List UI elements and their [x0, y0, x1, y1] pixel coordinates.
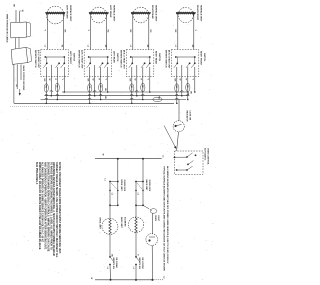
oven light connector oval: [150, 209, 157, 214]
broil lower contact: [109, 256, 111, 258]
connector oval: [99, 83, 103, 92]
svg-text:W: W: [48, 79, 50, 81]
surface element (R.R.) dashed circle: [133, 7, 149, 23]
thermostat terminals row2: [187, 164, 189, 166]
svg-text:RIGHT REAR: RIGHT REAR: [155, 51, 158, 64]
svg-text:TYPICAL SURFACE ELEMENT AND OV: TYPICAL SURFACE ELEMENT AND OVEN UNITS A…: [163, 166, 166, 271]
connector oval: [175, 84, 179, 93]
svg-text:LIGHT: LIGHT: [157, 215, 159, 222]
bottom bus wire L2: [95, 279, 153, 281]
switch output wires: [89, 67, 91, 103]
svg-text:W: W: [91, 79, 93, 81]
infinite switch (L.R.) box: [84, 50, 112, 77]
svg-text:WIRE THROUGH BX CABLE: WIRE THROUGH BX CABLE: [5, 14, 8, 43]
svg-text:OVEN CONTROL: OVEN CONTROL: [207, 148, 209, 165]
branch rail left: [109, 182, 111, 206]
oven thermostat dashed box: [175, 151, 204, 174]
element lead wire left: [132, 13, 134, 50]
bus junction dots: [131, 103, 133, 105]
switch contacts: [174, 63, 178, 68]
switch terminals: [131, 56, 150, 58]
bus wire 2: [45, 95, 189, 97]
branch drop wire: [117, 159, 119, 206]
bake lower contact: [135, 256, 137, 258]
switch internal stubs: [89, 57, 91, 63]
svg-text:GROUNDING DEVICES AFTER SERVIC: GROUNDING DEVICES AFTER SERVICING. 2. SK…: [52, 162, 55, 256]
switch terminals: [45, 56, 64, 58]
switch terminals: [176, 56, 195, 58]
infinite switch (R.R.) box: [126, 50, 154, 77]
BX cable connector box: [10, 22, 26, 38]
svg-text:INFINITE SWITCH: INFINITE SWITCH: [34, 50, 36, 68]
svg-text:LEFT FRONT: LEFT FRONT: [69, 51, 71, 65]
switch contacts: [43, 63, 47, 68]
broil bottom wire: [109, 265, 112, 280]
indicator light feed wire: [178, 100, 180, 121]
neutral wire down: [13, 64, 15, 103]
switch internal stubs: [176, 57, 178, 63]
bus wire 1: [62, 91, 189, 93]
chassis dotted line: [11, 106, 158, 108]
switch output wires: [176, 67, 178, 103]
switch internal stubs: [131, 57, 133, 63]
svg-text:WIRING CODES: BK-BLACK W-WHITE: WIRING CODES: BK-BLACK W-WHITE R-RED Y-Y…: [38, 162, 41, 250]
svg-text:SWITCH: SWITCH: [116, 53, 118, 62]
svg-text:2585W 236V: 2585W 236V: [123, 180, 125, 192]
bare copper wire: [20, 64, 22, 80]
rail tie top: [110, 181, 118, 183]
broil element wire upper: [109, 205, 111, 219]
wire hop arcs: [130, 94, 133, 95]
bus junction dots: [89, 103, 91, 105]
svg-text:SWITCH: SWITCH: [203, 53, 205, 62]
svg-text:AND DANGEROUS OPERATION. VERIF: AND DANGEROUS OPERATION. VERIFY OPERATIO…: [44, 162, 47, 250]
switch output wires: [131, 67, 133, 103]
svg-text:BR 2 REAR: BR 2 REAR: [115, 258, 118, 269]
svg-text:SWITCH: SWITCH: [158, 53, 160, 62]
svg-text:(R.F.) 5 HEAT UNIT: (R.F.) 5 HEAT UNIT: [168, 50, 171, 69]
svg-text:TO RANGE BEFORE DISCONNECTING: TO RANGE BEFORE DISCONNECTING WIRES. 3. …: [49, 162, 52, 250]
svg-text:L2: L2: [163, 276, 165, 278]
svg-text:2585W 236V: 2585W 236V: [148, 180, 150, 192]
element lead wire right: [148, 13, 150, 50]
element resistor band: [89, 12, 108, 14]
switch terminals: [89, 56, 108, 58]
svg-text:L2: L2: [137, 193, 139, 195]
svg-text:OVEN: OVEN: [154, 215, 156, 221]
svg-text:(R.R.) 5 HEAT UNIT: (R.R.) 5 HEAT UNIT: [123, 50, 126, 70]
svg-text:LEFT FRONT: LEFT FRONT: [66, 5, 68, 19]
svg-text:RIGHT FRONT: RIGHT FRONT: [200, 51, 202, 66]
svg-text:BR 1 FRONT: BR 1 FRONT: [141, 258, 143, 270]
infinite switch (L.F.) box: [41, 50, 69, 77]
svg-text:RIGHT FRONT: RIGHT FRONT: [196, 5, 198, 21]
svg-text:BAKE UNIT: BAKE UNIT: [120, 217, 123, 229]
feed junction node: [117, 158, 119, 160]
svg-text:SURFACE UNIT: SURFACE UNIT: [154, 5, 157, 22]
element lead wire right: [62, 13, 64, 50]
bake element wire lower: [135, 232, 137, 257]
wire hop arcs: [175, 94, 178, 95]
indicator light: [173, 121, 184, 132]
bus wire 4: [14, 102, 174, 104]
svg-text:L1: L1: [132, 267, 134, 269]
svg-text:BROIL UNIT: BROIL UNIT: [99, 218, 101, 230]
infinite switch (R.F.) box: [171, 50, 199, 77]
thermostat terminals row3: [176, 169, 178, 171]
oven light takeoff: [143, 205, 149, 208]
svg-text:ELEMENT: ELEMENT: [123, 217, 125, 227]
connector oval: [55, 83, 59, 92]
element lead wire left: [177, 13, 179, 50]
branch contact: [111, 183, 117, 189]
thermostat terminals row1: [174, 156, 176, 158]
svg-text:INFINITE SW: INFINITE SW: [138, 258, 140, 270]
switch output wires: [45, 67, 47, 103]
svg-text:LEFT REAR: LEFT REAR: [109, 5, 112, 18]
switch internal stubs: [46, 57, 48, 63]
svg-text:ALL RANGES OPERATE ON 3 WIRE S: ALL RANGES OPERATE ON 3 WIRE SERVICE 120…: [41, 162, 44, 243]
svg-text:(L.F.) 5 HEAT UNIT: (L.F.) 5 HEAT UNIT: [37, 50, 40, 69]
terminal block box: [11, 47, 27, 64]
connector oval: [44, 84, 48, 93]
svg-text:INFINITE SWITCH: INFINITE SWITCH: [77, 50, 79, 68]
svg-text:AUTOMATIC: AUTOMATIC: [203, 148, 206, 161]
element resistor band: [46, 12, 65, 14]
bus wire 1 hook: [188, 92, 190, 96]
svg-text:BARE COPPER GROUND: BARE COPPER GROUND: [22, 66, 25, 91]
svg-text:W: W: [102, 154, 104, 156]
svg-text:INFINITE SWITCH: INFINITE SWITCH: [120, 50, 122, 68]
connector oval: [88, 84, 92, 93]
svg-text:RIGHT REAR: RIGHT REAR: [151, 5, 154, 19]
oven light wire: [152, 213, 154, 234]
oven light lower wire: [151, 246, 153, 280]
bus wire 3: [41, 99, 187, 101]
indicator light lower lead: [177, 132, 179, 151]
svg-text:ALL WIRING SHOWN WITH SWITCHES: ALL WIRING SHOWN WITH SWITCHES OFF. POWE…: [166, 166, 169, 264]
element resistor band: [131, 12, 150, 14]
rail tie top: [136, 181, 143, 183]
svg-text:L1: L1: [162, 155, 164, 157]
branch contact: [137, 183, 142, 189]
svg-text:BAKE UNIT: BAKE UNIT: [145, 180, 148, 192]
oven feed wire L1: [95, 158, 162, 160]
svg-text:BROIL UNIT: BROIL UNIT: [120, 180, 122, 192]
svg-text:DISCONNECTION WHEN SERVICING C: DISCONNECTION WHEN SERVICING CONTROLS. W…: [46, 162, 49, 252]
bake bottom wire: [135, 265, 137, 280]
svg-text:INDICATOR: INDICATOR: [185, 111, 188, 122]
surface element (R.F.) dashed circle: [178, 7, 193, 22]
svg-text:INFINITE SW: INFINITE SW: [112, 258, 114, 270]
branch rail left: [135, 182, 137, 206]
connector oval: [186, 83, 190, 92]
switch contacts: [129, 63, 133, 68]
svg-text:(L.R.) 5 HEAT UNIT: (L.R.) 5 HEAT UNIT: [81, 50, 84, 69]
bus junction dots: [46, 103, 48, 105]
oven light: [146, 234, 158, 246]
svg-text:INFINITE SWITCH: INFINITE SWITCH: [165, 50, 167, 68]
svg-text:L1: L1: [104, 179, 106, 181]
element resistor band: [176, 12, 195, 14]
element lead wire left: [90, 13, 92, 50]
svg-text:CONNECT RANGE AS SHOWN. USE CO: CONNECT RANGE AS SHOWN. USE COPPER CONDU…: [55, 162, 58, 258]
svg-text:SURFACE UNIT: SURFACE UNIT: [69, 5, 72, 22]
element lead wire right: [106, 13, 108, 50]
svg-text:LEFT REAR: LEFT REAR: [113, 51, 116, 63]
bus oval label RED: [153, 97, 162, 101]
connector oval: [141, 83, 145, 92]
bake element wire upper: [135, 205, 137, 217]
wire hop arcs: [88, 94, 91, 95]
bus junction dots: [176, 103, 178, 105]
svg-text:W: W: [179, 79, 181, 81]
annotation arrow: [164, 126, 175, 147]
connector oval: [130, 84, 134, 93]
branch drop wire: [142, 159, 144, 206]
rail tie bottom: [110, 204, 118, 206]
broil element: [102, 218, 118, 234]
surface element (L.R.) dashed circle: [91, 7, 107, 23]
feed junction node: [142, 158, 144, 160]
broil element wire lower: [109, 234, 111, 257]
element lead wire left: [46, 13, 48, 50]
surface element (L.F.) dashed circle: [47, 6, 65, 24]
connector stubs: [15, 38, 17, 49]
wire hop arcs: [45, 94, 48, 95]
svg-text:L1: L1: [106, 267, 108, 269]
element lead wire right: [193, 13, 195, 50]
supply wires: [15, 10, 17, 22]
rail tie bottom: [136, 204, 143, 206]
svg-text:8101 P550-60 REV A: 8101 P550-60 REV A: [35, 162, 38, 185]
svg-text:LIGHT ON: LIGHT ON: [189, 111, 191, 121]
ground wire and arrow: [16, 64, 18, 89]
switch contacts: [87, 63, 91, 68]
svg-text:W: W: [134, 79, 136, 81]
svg-text:SURFACE UNIT: SURFACE UNIT: [199, 5, 202, 22]
svg-text:NOTICE: DISCONNECT RANGE FROM: NOTICE: DISCONNECT RANGE FROM POWER SUPP…: [58, 162, 61, 254]
svg-text:L2: L2: [111, 193, 113, 195]
bake element: [128, 217, 143, 232]
